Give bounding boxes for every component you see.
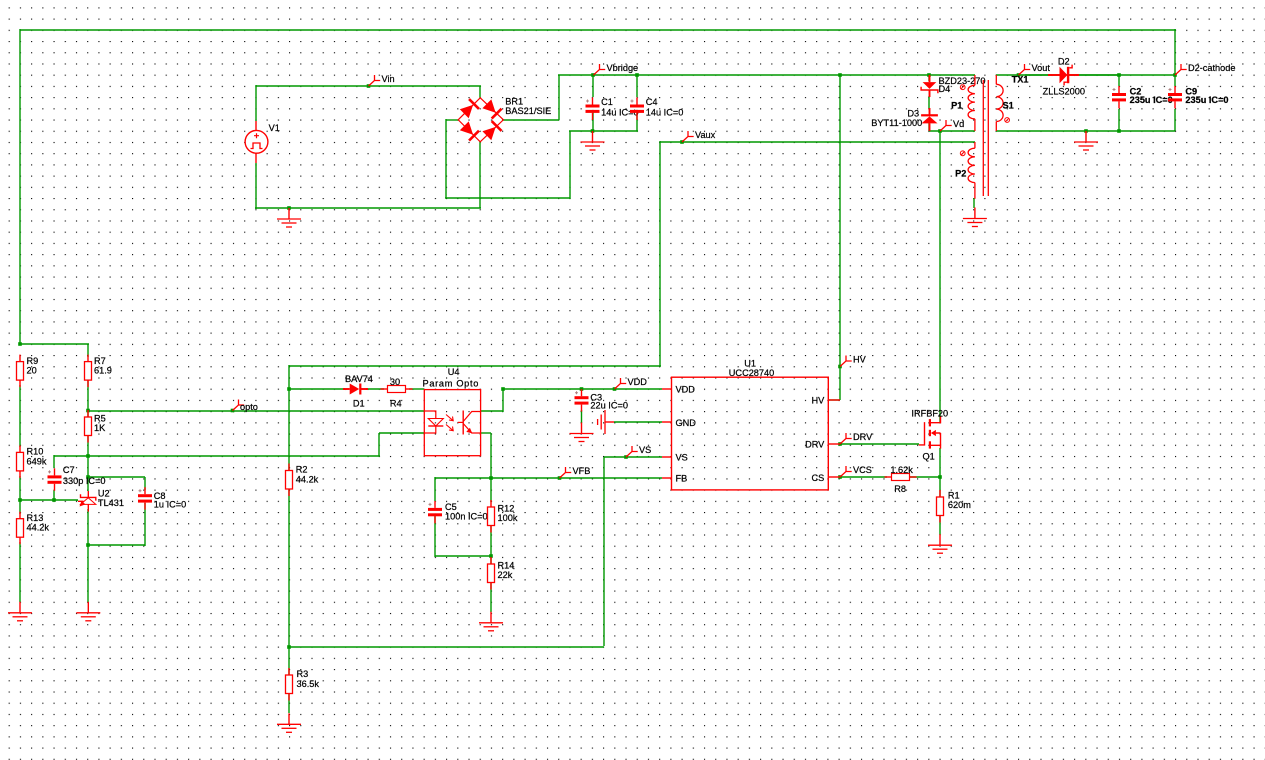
wire R5 wire right	[88, 455, 380, 457]
svg-text:D2: D2	[1058, 57, 1070, 67]
U1 pin GND	[662, 421, 672, 423]
svg-text:Vbridge: Vbridge	[607, 63, 639, 73]
wire bridge bottom drop	[479, 141, 481, 208]
wire GND pin wire	[614, 421, 662, 423]
ground C3	[581, 423, 583, 434]
ground V1	[288, 208, 290, 219]
svg-text:D2-cathode: D2-cathode	[1188, 63, 1236, 73]
wire C9 hang	[1174, 75, 1176, 86]
svg-text:C4: C4	[646, 97, 658, 107]
node label Vbridge	[594, 64, 606, 75]
wire Vaux riser	[659, 141, 661, 366]
node VFB-label	[558, 476, 562, 480]
U1 pin HV	[828, 399, 840, 401]
svg-text:C1: C1	[601, 97, 613, 107]
wire R7R5 node drop	[87, 380, 89, 417]
wire C3 gnd link	[581, 410, 583, 423]
node Vaux	[680, 140, 684, 144]
node label Vaux	[682, 131, 694, 142]
node label D2-cathode	[1175, 64, 1187, 75]
capacitor C9	[1174, 86, 1176, 93]
wire C4 low	[636, 109, 638, 131]
node V1-gnd	[287, 206, 291, 210]
resistor R9	[19, 355, 21, 362]
svg-text:235u IC=0: 235u IC=0	[1130, 95, 1173, 105]
node VS-label	[624, 455, 628, 459]
svg-text:30: 30	[390, 377, 400, 387]
resistor R14	[490, 557, 492, 564]
wire DRV wire	[840, 443, 919, 445]
wire C7 low	[53, 490, 55, 501]
diode D3	[929, 108, 931, 116]
svg-text:Vd: Vd	[953, 119, 964, 129]
node FB-T	[287, 645, 291, 649]
wire FB long wire	[289, 646, 604, 648]
node label DRV	[840, 433, 852, 444]
node D2-cathode	[1173, 73, 1177, 77]
node C7-bot	[52, 498, 56, 502]
wire C8 return	[88, 544, 145, 546]
svg-text:44.2k: 44.2k	[296, 474, 319, 484]
svg-text:P1: P1	[951, 100, 962, 110]
node rail-L	[18, 498, 22, 502]
node opto-label	[231, 409, 235, 413]
svg-text:235u IC=0: 235u IC=0	[1185, 95, 1228, 105]
svg-text:CS: CS	[812, 473, 825, 483]
svg-text:FB: FB	[676, 474, 688, 484]
node C8-T	[86, 475, 90, 479]
wire R8 out	[910, 476, 941, 478]
node label Vd	[940, 120, 952, 131]
resistor R10	[19, 445, 21, 452]
wire C8 feed	[88, 476, 145, 478]
wire aux over	[289, 365, 661, 367]
wire R2 vertical top	[288, 389, 290, 470]
svg-text:C5: C5	[445, 502, 457, 512]
node C3-node	[580, 387, 584, 391]
wire C9 low	[1174, 109, 1176, 131]
node opto-coll	[501, 387, 505, 391]
svg-text:HV: HV	[812, 395, 826, 405]
node opto-T	[86, 409, 90, 413]
svg-text:VS: VS	[676, 453, 688, 463]
resistor R2	[288, 464, 290, 471]
wire R12 drop	[490, 478, 492, 502]
wire D2 out	[1076, 74, 1120, 76]
svg-text:1.62k: 1.62k	[890, 465, 913, 475]
node DRV-node	[838, 442, 842, 446]
transformer TX1 core	[982, 80, 984, 196]
ground secondary	[1085, 131, 1087, 142]
svg-text:BAS21/SIE: BAS21/SIE	[505, 106, 551, 116]
U1 pin FB	[662, 477, 672, 479]
resistor R5	[87, 410, 89, 417]
resistor R7	[87, 355, 89, 362]
wire C2 low	[1118, 109, 1120, 131]
wire R7 drop	[87, 344, 89, 357]
svg-text:GND: GND	[676, 418, 697, 428]
wire Vbridge rail	[558, 74, 975, 76]
node D4-tap	[927, 73, 931, 77]
wire V1 top stub	[255, 85, 257, 121]
wire Vd wire	[929, 130, 975, 132]
U1 pin DRV	[828, 443, 840, 445]
IC U1 UCC28740 box	[672, 377, 829, 490]
svg-text:Vaux: Vaux	[695, 130, 716, 140]
U1 pin VS	[662, 456, 672, 458]
wire VDD rail	[503, 388, 662, 390]
svg-text:330p IC=0: 330p IC=0	[63, 476, 106, 486]
node R5-bot	[86, 454, 90, 458]
wire R9-R7 link	[19, 343, 89, 345]
wire D4-D3 link	[928, 96, 930, 109]
node Vout	[1017, 73, 1021, 77]
svg-text:U4: U4	[448, 367, 460, 377]
capacitor C5	[434, 501, 436, 508]
bridge rectifier BR1	[458, 98, 503, 142]
wire R14 drop	[490, 556, 492, 564]
wire D4 tap	[928, 75, 930, 81]
svg-text:TL431: TL431	[98, 498, 124, 508]
aux winding P2	[974, 142, 976, 148]
primary winding P1	[974, 75, 976, 85]
svg-text:BR1: BR1	[505, 96, 523, 106]
resistor R1	[939, 490, 941, 497]
wire left border	[19, 29, 21, 345]
ground TL431	[87, 602, 89, 613]
svg-text:D1: D1	[353, 399, 365, 409]
wire C1 low	[592, 109, 594, 131]
wire bridge top drop	[479, 86, 481, 98]
wire left low rail	[20, 499, 78, 501]
wire C7 drop	[53, 455, 55, 468]
svg-text:V1: V1	[269, 123, 280, 133]
wire bridge left drop	[445, 119, 447, 198]
node label HV	[840, 356, 852, 367]
source V1	[255, 121, 257, 131]
U4 phototransistor	[462, 411, 464, 435]
svg-text:C7: C7	[63, 465, 75, 475]
svg-text:14u IC=0: 14u IC=0	[646, 108, 684, 118]
secondary winding S1	[995, 75, 997, 84]
node CS-node	[838, 475, 842, 479]
svg-text:opto: opto	[240, 402, 258, 412]
wire emitter drop	[490, 433, 492, 478]
svg-text:IRFBF20: IRFBF20	[911, 409, 948, 419]
svg-text:P2: P2	[955, 169, 966, 179]
node label VS	[626, 446, 638, 457]
wire Vaux wire	[660, 141, 975, 143]
svg-text:1K: 1K	[94, 423, 106, 433]
P2 polarity dot	[960, 151, 965, 156]
wire C2 hang	[1118, 75, 1120, 86]
wire VFB wire	[435, 477, 662, 479]
resistor R8	[885, 476, 892, 478]
node Vd	[938, 129, 942, 133]
wire C8 drop	[144, 477, 146, 490]
wire LED return	[379, 432, 424, 434]
wire VS wire	[604, 456, 662, 458]
S1 polarity dot	[1005, 118, 1010, 123]
ground R1	[939, 534, 941, 545]
svg-text:R13: R13	[27, 513, 44, 523]
node C2-bot	[1117, 129, 1121, 133]
U1 pin CS	[828, 476, 840, 478]
capacitor C4	[636, 98, 638, 105]
node C1-gnd	[591, 129, 595, 133]
U4 LED	[424, 411, 436, 433]
P1 polarity dot	[960, 85, 965, 90]
node label VDD	[615, 378, 627, 389]
wire opto collector out	[481, 410, 503, 412]
ground R3	[288, 713, 290, 724]
capacitor C2	[1118, 86, 1120, 93]
D1 leads	[343, 388, 350, 390]
svg-text:TX1: TX1	[1012, 75, 1029, 85]
svg-text:ZLLS2000: ZLLS2000	[1043, 87, 1085, 97]
wire D3 out	[928, 123, 930, 131]
wire R4-opto link	[409, 388, 424, 390]
svg-text:1u IC=0: 1u IC=0	[154, 499, 186, 509]
wire P2 gnd stub	[973, 198, 975, 208]
ground GND-pin sideways	[605, 421, 614, 423]
svg-text:36.5k: 36.5k	[297, 679, 320, 689]
node C4-tap	[635, 73, 639, 77]
svg-text:Q1: Q1	[923, 451, 935, 461]
wire C5 low	[434, 516, 436, 557]
node R12-T	[489, 476, 493, 480]
wire D1-R4 link	[366, 388, 384, 390]
wire bridge left out	[446, 119, 459, 121]
wire C1C4 gnd link	[569, 130, 638, 132]
svg-text:R5: R5	[94, 414, 106, 424]
wire collector riser	[502, 389, 504, 412]
wire Vin top	[256, 85, 481, 87]
resistor R3	[288, 668, 290, 675]
resistor R12	[490, 500, 492, 507]
svg-text:D4: D4	[939, 84, 951, 94]
svg-text:100k: 100k	[498, 513, 518, 523]
ground R14	[490, 612, 492, 623]
node HV-label	[838, 365, 842, 369]
wire top border	[20, 29, 1176, 31]
node C2-top	[1117, 73, 1121, 77]
optocoupler U4 box	[424, 390, 480, 456]
U4 light arrows	[446, 415, 453, 431]
svg-text:S1: S1	[1003, 101, 1014, 111]
diode D2	[1048, 74, 1060, 76]
svg-text:VDD: VDD	[676, 385, 696, 395]
svg-text:Vout: Vout	[1032, 63, 1051, 73]
node label VCS	[840, 466, 852, 477]
diode D1 BAV74	[350, 384, 360, 395]
svg-text:620m: 620m	[948, 500, 971, 510]
node label Vout	[1019, 64, 1031, 75]
wire R12 low	[490, 526, 492, 557]
wire FB long riser	[603, 457, 605, 646]
node R8R1-T	[938, 475, 942, 479]
wire LED return riser	[378, 433, 380, 456]
svg-text:Vin: Vin	[382, 74, 395, 84]
resistor R13	[19, 512, 21, 519]
capacitor C1	[592, 98, 594, 105]
svg-text:VFB: VFB	[573, 466, 591, 476]
wire R13 gnd link	[19, 542, 21, 602]
wire V1 bottom	[255, 163, 257, 209]
wire HV stub green	[829, 399, 840, 401]
node sec-gnd	[1084, 129, 1088, 133]
wire C1 hang	[592, 75, 594, 97]
wire R14 low	[490, 583, 492, 612]
capacitor C3	[581, 389, 583, 396]
svg-text:22u IC=0: 22u IC=0	[590, 400, 628, 410]
ground P2	[974, 208, 976, 219]
wire secondary return	[996, 130, 1175, 132]
wire bridge minus link	[445, 197, 570, 199]
svg-text:649k: 649k	[27, 456, 47, 466]
wire R5 drop	[87, 436, 89, 491]
capacitor C8	[144, 487, 146, 494]
wire C5 drop	[434, 477, 436, 501]
wire R9R10 link	[19, 385, 21, 447]
wire D1 feed	[289, 388, 345, 390]
node D1-node	[287, 387, 291, 391]
svg-text:100n IC=0: 100n IC=0	[445, 512, 488, 522]
transistor Q1 IRFBF20	[919, 422, 925, 445]
wire opto emitter out	[481, 432, 491, 434]
svg-text:R2: R2	[296, 465, 308, 475]
wire C4 hang	[636, 75, 638, 97]
wire Vout rail	[996, 74, 1175, 76]
node Vin	[367, 84, 371, 88]
svg-text:D3: D3	[907, 108, 919, 118]
svg-text:VCS: VCS	[853, 465, 872, 475]
wire R1 low	[939, 516, 941, 535]
shunt regulator U2 TL431	[87, 491, 89, 497]
zener D4	[929, 75, 931, 82]
svg-text:UCC28740: UCC28740	[729, 368, 774, 378]
node label opto	[233, 400, 245, 411]
svg-text:R14: R14	[498, 561, 515, 571]
wire HV riser	[839, 75, 841, 400]
svg-text:20: 20	[27, 366, 37, 376]
wire D2 segment	[1025, 74, 1052, 76]
wire R1 hang	[939, 477, 941, 497]
wire aux drop	[288, 365, 290, 390]
svg-text:R8: R8	[894, 484, 906, 494]
node label VFB	[560, 467, 572, 478]
capacitor C7	[54, 468, 56, 475]
wire right border	[1174, 29, 1176, 76]
svg-text:61.9: 61.9	[94, 366, 112, 376]
svg-text:R3: R3	[297, 669, 309, 679]
svg-text:44.2k: 44.2k	[27, 523, 50, 533]
wire C9 corner	[1174, 130, 1176, 131]
svg-text:DRV: DRV	[805, 440, 825, 450]
wire R2-R3 link	[288, 647, 290, 675]
svg-text:BAV74: BAV74	[345, 374, 373, 384]
wire C5 return	[435, 555, 492, 557]
node C8-ret	[86, 543, 90, 547]
node Vbridge	[591, 73, 595, 77]
svg-text:U2: U2	[98, 488, 110, 498]
node label Vin	[369, 75, 381, 86]
wire bridge plus riser	[558, 75, 560, 120]
wire TL431 anode drop	[87, 509, 89, 602]
wire TL431 ref stub	[76, 500, 78, 501]
svg-text:R7: R7	[94, 356, 106, 366]
svg-text:R9: R9	[27, 356, 39, 366]
node HV-tap	[838, 73, 842, 77]
wire R2 vertical bottom	[288, 489, 290, 647]
wire CS wire	[840, 476, 887, 478]
svg-text:Param Opto: Param Opto	[423, 379, 480, 389]
svg-text:BYT11-1000: BYT11-1000	[871, 118, 922, 128]
wire V1 return	[255, 207, 481, 209]
wire C7 link	[54, 455, 89, 457]
svg-text:DRV: DRV	[853, 432, 873, 442]
wire opto wire	[88, 410, 424, 412]
svg-text:VS: VS	[639, 445, 651, 455]
node VDD-label	[613, 387, 617, 391]
wire R10 low	[19, 476, 21, 514]
svg-text:HV: HV	[853, 355, 867, 365]
svg-text:R12: R12	[498, 504, 515, 514]
wire Q1 source drop	[939, 448, 941, 478]
svg-text:R10: R10	[27, 447, 44, 457]
ground C1	[592, 131, 594, 142]
svg-text:VDD: VDD	[628, 377, 648, 387]
node R9-top	[18, 342, 22, 346]
svg-text:22k: 22k	[498, 570, 513, 580]
wire drain drop	[939, 131, 941, 423]
wire bridge right out	[503, 119, 559, 121]
resistor R4	[381, 388, 388, 390]
node R14-T	[489, 554, 493, 558]
ground R13	[19, 602, 21, 613]
wire C8 low	[144, 503, 146, 546]
wire minus riser	[569, 131, 571, 199]
wire R3 gnd link	[288, 694, 290, 713]
svg-text:R4: R4	[390, 399, 402, 409]
U1 pin VDD	[662, 388, 672, 390]
